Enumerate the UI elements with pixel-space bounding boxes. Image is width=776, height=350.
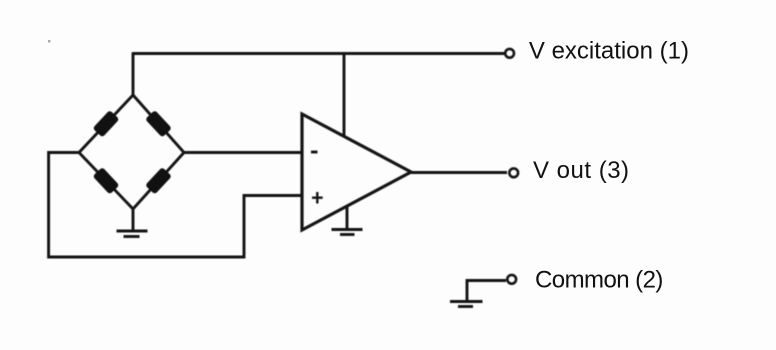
U1 inverting input label (-): [311, 151, 318, 154]
wire: bridge right node to inverting input: [184, 151, 302, 154]
U1 non-inverting input label (+): [312, 192, 323, 204]
svg-text:Common (2): Common (2): [535, 266, 663, 293]
ground: op-amp: [332, 207, 363, 235]
wire: bridge top riser: [132, 52, 135, 95]
resistor R1 (top-left arm): [93, 110, 120, 137]
ground: bridge: [117, 209, 148, 237]
terminal: Common (2): [507, 275, 516, 284]
wire: excitation supply to op-amp: [343, 52, 346, 136]
wire: bridge diamond: [79, 95, 184, 209]
resistor R2 (top-right arm): [145, 110, 172, 137]
terminal: V excitation (1): [505, 49, 514, 58]
ground: common: [450, 302, 483, 307]
wire: op-amp output: [411, 171, 507, 174]
wire: V excitation bus: [133, 52, 505, 55]
wire: common lead: [467, 281, 506, 302]
svg-text:V excitation (1): V excitation (1): [529, 38, 689, 65]
resistor R4 (bottom-right arm): [145, 167, 172, 194]
wire: left rail (bridge left node to non-inverting input): [49, 153, 302, 258]
op-amp U1: [302, 114, 411, 230]
svg-text:V out (3): V out (3): [533, 157, 630, 184]
terminal: V out (3): [509, 168, 518, 177]
resistor R3 (bottom-left arm): [93, 167, 120, 194]
